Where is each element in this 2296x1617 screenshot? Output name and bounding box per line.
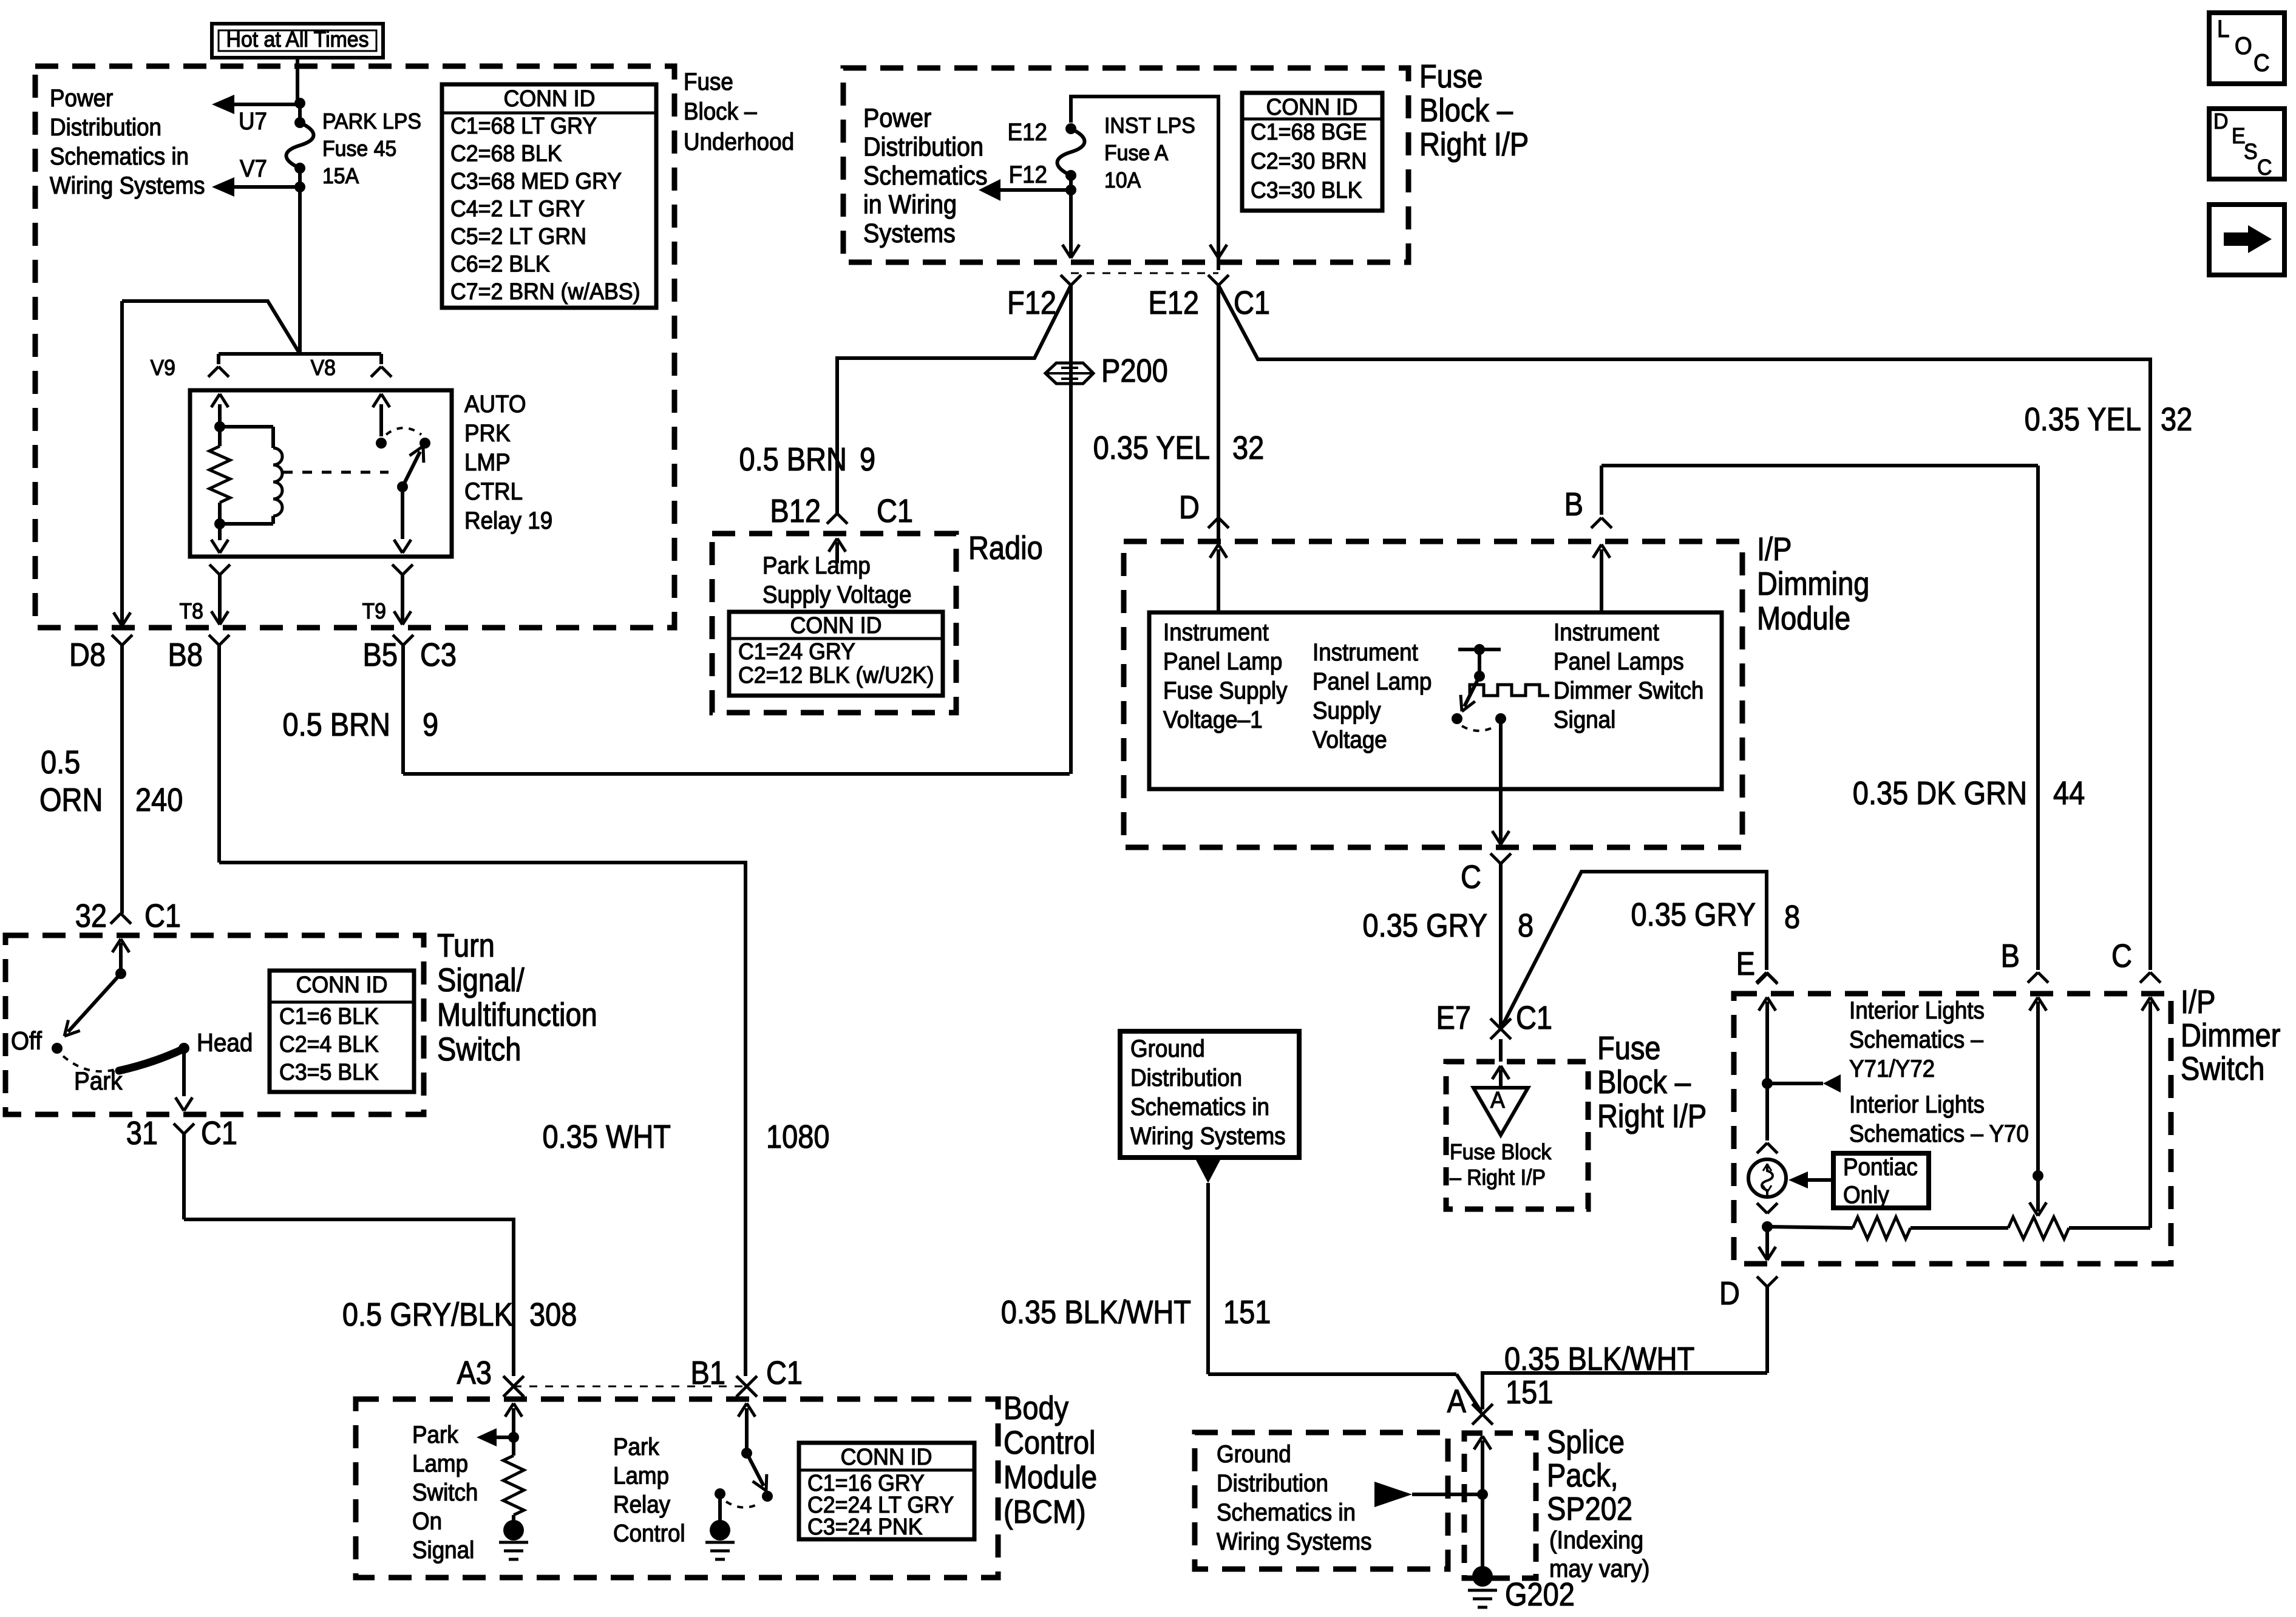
svg-text:1080: 1080 <box>766 1118 830 1155</box>
svg-text:Fuse 45: Fuse 45 <box>322 137 396 161</box>
svg-text:Control: Control <box>613 1520 685 1547</box>
svg-text:Signal: Signal <box>412 1537 474 1564</box>
svg-text:C1=68 LT GRY: C1=68 LT GRY <box>450 113 597 138</box>
svg-text:CTRL: CTRL <box>464 478 523 506</box>
svg-text:Wiring Systems: Wiring Systems <box>50 172 205 200</box>
svg-text:Module: Module <box>1757 600 1850 637</box>
svg-text:B8: B8 <box>168 636 203 673</box>
svg-text:Dimming: Dimming <box>1757 565 1869 602</box>
svg-text:Distribution: Distribution <box>1130 1065 1242 1092</box>
svg-text:P200: P200 <box>1101 352 1168 389</box>
svg-text:Splice: Splice <box>1547 1423 1625 1460</box>
svg-text:T8: T8 <box>180 599 203 623</box>
svg-text:15A: 15A <box>322 164 359 188</box>
svg-text:B: B <box>1564 486 1583 523</box>
svg-text:C3=68 MED GRY: C3=68 MED GRY <box>450 168 622 194</box>
svg-text:Wiring Systems: Wiring Systems <box>1217 1528 1372 1556</box>
svg-text:CONN ID: CONN ID <box>841 1444 932 1470</box>
svg-text:F12: F12 <box>1009 161 1047 189</box>
svg-text:C5=2 LT GRN: C5=2 LT GRN <box>450 223 586 249</box>
svg-text:0.35 BLK/WHT: 0.35 BLK/WHT <box>1504 1340 1694 1377</box>
svg-text:Fuse: Fuse <box>1419 58 1483 95</box>
svg-text:C1: C1 <box>1234 284 1270 321</box>
svg-text:Switch: Switch <box>412 1479 478 1507</box>
svg-text:Only: Only <box>1843 1182 1889 1209</box>
svg-text:Body: Body <box>1004 1389 1069 1426</box>
svg-text:151: 151 <box>1223 1293 1271 1331</box>
svg-text:Power: Power <box>863 103 931 132</box>
svg-text:0.35 YEL: 0.35 YEL <box>2025 401 2141 438</box>
svg-text:0.35 GRY: 0.35 GRY <box>1363 907 1487 944</box>
svg-text:0.5: 0.5 <box>41 744 80 781</box>
svg-text:O: O <box>2235 33 2252 60</box>
svg-text:Right I/P: Right I/P <box>1597 1097 1707 1134</box>
svg-text:32: 32 <box>75 897 107 934</box>
svg-text:L: L <box>2217 16 2229 43</box>
svg-text:Multifunction: Multifunction <box>437 996 597 1033</box>
svg-text:C2=68 BLK: C2=68 BLK <box>450 140 562 166</box>
svg-text:A: A <box>1490 1087 1505 1113</box>
svg-text:B5: B5 <box>363 636 398 673</box>
svg-text:C1: C1 <box>766 1354 803 1391</box>
svg-text:Schematics in: Schematics in <box>1217 1499 1356 1527</box>
svg-text:0.5 GRY/BLK: 0.5 GRY/BLK <box>342 1296 513 1333</box>
svg-text:V8: V8 <box>311 356 336 380</box>
svg-text:INST LPS: INST LPS <box>1104 114 1195 138</box>
svg-text:B12: B12 <box>770 492 821 529</box>
svg-text:A3: A3 <box>457 1354 492 1391</box>
svg-text:C7=2 BRN (w/ABS): C7=2 BRN (w/ABS) <box>450 279 640 304</box>
svg-text:Ground: Ground <box>1130 1036 1205 1063</box>
svg-text:C: C <box>2257 155 2272 180</box>
svg-text:AUTO: AUTO <box>464 391 526 418</box>
svg-text:Interior Lights: Interior Lights <box>1849 997 1985 1025</box>
svg-text:SP202: SP202 <box>1547 1490 1632 1527</box>
svg-text:Schematics in: Schematics in <box>1130 1094 1269 1121</box>
svg-text:C1=68 BGE: C1=68 BGE <box>1251 119 1367 144</box>
svg-text:Supply: Supply <box>1313 697 1381 725</box>
svg-text:D: D <box>1179 489 1200 526</box>
svg-text:CONN ID: CONN ID <box>1266 94 1358 120</box>
svg-text:Block –: Block – <box>1597 1063 1691 1100</box>
svg-text:F12: F12 <box>1007 284 1056 321</box>
svg-text:Power: Power <box>50 85 113 112</box>
svg-text:Pack,: Pack, <box>1547 1457 1618 1494</box>
svg-text:0.5 BRN: 0.5 BRN <box>739 441 847 478</box>
svg-text:Instrument: Instrument <box>1313 639 1418 666</box>
svg-text:0.35 WHT: 0.35 WHT <box>543 1118 671 1155</box>
svg-text:C1: C1 <box>201 1114 237 1151</box>
svg-text:B: B <box>2001 937 2020 974</box>
svg-text:E12: E12 <box>1148 284 1199 321</box>
svg-text:D: D <box>1719 1275 1740 1312</box>
svg-text:Module: Module <box>1004 1459 1097 1496</box>
svg-text:E7: E7 <box>1436 999 1471 1036</box>
svg-text:C1: C1 <box>1516 999 1552 1036</box>
svg-text:8: 8 <box>1518 907 1533 944</box>
svg-text:CONN ID: CONN ID <box>504 86 596 111</box>
svg-text:Switch: Switch <box>437 1031 521 1068</box>
svg-text:9: 9 <box>860 441 875 478</box>
svg-text:C: C <box>2111 937 2132 974</box>
svg-text:Head: Head <box>197 1028 253 1057</box>
svg-text:Pontiac: Pontiac <box>1843 1154 1918 1181</box>
svg-text:Instrument: Instrument <box>1163 619 1269 646</box>
svg-text:E12: E12 <box>1008 119 1047 146</box>
svg-text:Distribution: Distribution <box>50 114 161 141</box>
svg-text:Wiring Systems: Wiring Systems <box>1130 1123 1286 1150</box>
svg-text:T9: T9 <box>362 599 386 623</box>
svg-text:32: 32 <box>1232 429 1264 466</box>
svg-text:240: 240 <box>135 781 183 818</box>
svg-text:151: 151 <box>1506 1374 1553 1411</box>
svg-text:Park Lamp: Park Lamp <box>763 552 871 580</box>
svg-text:Off: Off <box>11 1026 42 1055</box>
svg-text:C: C <box>2254 50 2270 77</box>
svg-text:0.35 BLK/WHT: 0.35 BLK/WHT <box>1001 1293 1191 1331</box>
svg-text:B1: B1 <box>691 1354 725 1391</box>
svg-text:ORN: ORN <box>39 781 103 818</box>
svg-text:Relay: Relay <box>613 1491 671 1519</box>
svg-text:Fuse: Fuse <box>1597 1029 1660 1066</box>
svg-text:I/P: I/P <box>1757 531 1792 568</box>
svg-text:Signal: Signal <box>1554 707 1615 734</box>
svg-text:Panel Lamps: Panel Lamps <box>1554 648 1684 676</box>
svg-text:CONN ID: CONN ID <box>790 612 882 638</box>
svg-text:Supply Voltage: Supply Voltage <box>763 581 911 609</box>
svg-text:Lamp: Lamp <box>412 1450 468 1477</box>
svg-text:10A: 10A <box>1104 168 1141 192</box>
svg-text:0.35 DK GRN: 0.35 DK GRN <box>1853 775 2027 812</box>
svg-text:Panel Lamp: Panel Lamp <box>1313 668 1432 696</box>
svg-text:Instrument: Instrument <box>1554 619 1659 646</box>
svg-text:Panel Lamp: Panel Lamp <box>1163 648 1282 676</box>
svg-text:in Wiring: in Wiring <box>863 189 957 219</box>
svg-text:32: 32 <box>2161 401 2192 438</box>
svg-text:Interior Lights: Interior Lights <box>1849 1091 1985 1119</box>
svg-text:E: E <box>1736 945 1755 982</box>
svg-text:C3=24 PNK: C3=24 PNK <box>807 1514 923 1539</box>
svg-text:D8: D8 <box>69 636 106 673</box>
svg-text:Fuse Block: Fuse Block <box>1450 1140 1552 1164</box>
svg-text:0.35 GRY: 0.35 GRY <box>1631 896 1756 933</box>
svg-text:9: 9 <box>423 706 438 743</box>
svg-text:Hot at All Times: Hot at All Times <box>226 27 369 52</box>
svg-text:Block –: Block – <box>1419 92 1513 129</box>
svg-text:I/P: I/P <box>2181 983 2215 1020</box>
svg-text:Park: Park <box>412 1422 458 1449</box>
svg-text:Ground: Ground <box>1217 1441 1291 1468</box>
svg-text:0.5 BRN: 0.5 BRN <box>282 706 390 743</box>
svg-text:Fuse A: Fuse A <box>1104 141 1169 165</box>
svg-text:D: D <box>2213 109 2228 134</box>
svg-text:Signal/: Signal/ <box>437 961 525 998</box>
svg-text:(Indexing: (Indexing <box>1549 1527 1643 1554</box>
svg-text:U7: U7 <box>239 108 267 135</box>
svg-text:V7: V7 <box>240 155 267 183</box>
svg-text:Systems: Systems <box>863 218 956 248</box>
svg-text:C2=4 BLK: C2=4 BLK <box>279 1031 379 1057</box>
svg-text:Lamp: Lamp <box>613 1462 669 1490</box>
svg-text:Fuse: Fuse <box>684 69 733 96</box>
svg-text:C3=30 BLK: C3=30 BLK <box>1251 177 1362 203</box>
svg-text:C4=2 LT GRY: C4=2 LT GRY <box>450 195 585 221</box>
svg-text:Right I/P: Right I/P <box>1419 126 1529 163</box>
svg-text:Park: Park <box>613 1434 659 1461</box>
svg-text:C3: C3 <box>420 636 457 673</box>
svg-text:CONN ID: CONN ID <box>296 972 388 997</box>
svg-text:Voltage–1: Voltage–1 <box>1163 707 1263 734</box>
svg-text:C1: C1 <box>877 492 913 529</box>
svg-text:C6=2 BLK: C6=2 BLK <box>450 251 550 276</box>
svg-text:Underhood: Underhood <box>684 129 794 156</box>
svg-text:C1=6 BLK: C1=6 BLK <box>279 1003 379 1029</box>
svg-text:Distribution: Distribution <box>863 132 983 161</box>
svg-text:Voltage: Voltage <box>1313 727 1387 754</box>
svg-text:C3=5 BLK: C3=5 BLK <box>279 1059 379 1085</box>
svg-text:Radio: Radio <box>968 529 1043 566</box>
svg-text:Schematics –: Schematics – <box>1849 1026 1983 1054</box>
svg-text:G202: G202 <box>1505 1576 1575 1613</box>
svg-text:PARK LPS: PARK LPS <box>322 109 421 134</box>
svg-text:Turn: Turn <box>437 927 495 964</box>
svg-text:(BCM): (BCM) <box>1004 1493 1086 1530</box>
svg-text:31: 31 <box>126 1114 158 1151</box>
svg-text:44: 44 <box>2053 775 2085 812</box>
svg-text:Block –: Block – <box>684 98 757 126</box>
svg-text:0.35 YEL: 0.35 YEL <box>1093 429 1210 466</box>
svg-text:C1: C1 <box>144 897 181 934</box>
svg-text:8: 8 <box>1784 898 1800 935</box>
svg-text:Schematics – Y70: Schematics – Y70 <box>1849 1120 2029 1148</box>
svg-text:Schematics in: Schematics in <box>50 143 189 171</box>
svg-text:Schematics: Schematics <box>863 160 988 190</box>
svg-text:308: 308 <box>529 1296 577 1333</box>
svg-text:Relay 19: Relay 19 <box>464 507 552 535</box>
svg-text:Control: Control <box>1004 1424 1095 1461</box>
svg-text:On: On <box>412 1508 442 1535</box>
svg-text:– Right I/P: – Right I/P <box>1450 1165 1546 1190</box>
svg-text:A: A <box>1447 1383 1467 1420</box>
svg-text:Dimmer: Dimmer <box>2181 1017 2281 1054</box>
svg-text:Distribution: Distribution <box>1217 1470 1328 1497</box>
svg-text:LMP: LMP <box>464 449 511 476</box>
svg-text:Y71/Y72: Y71/Y72 <box>1849 1056 1935 1083</box>
svg-text:Dimmer Switch: Dimmer Switch <box>1554 677 1703 705</box>
svg-text:Switch: Switch <box>2181 1050 2264 1087</box>
svg-text:C: C <box>1461 858 1481 895</box>
svg-text:C2=30 BRN: C2=30 BRN <box>1251 148 1367 174</box>
svg-text:C2=12 BLK (w/U2K): C2=12 BLK (w/U2K) <box>738 662 934 688</box>
svg-text:PRK: PRK <box>464 420 511 447</box>
svg-text:S: S <box>2244 140 2258 164</box>
svg-text:Park: Park <box>74 1066 123 1095</box>
svg-text:C1=24 GRY: C1=24 GRY <box>738 639 855 664</box>
svg-text:Fuse Supply: Fuse Supply <box>1163 677 1288 705</box>
svg-text:V9: V9 <box>151 356 175 380</box>
